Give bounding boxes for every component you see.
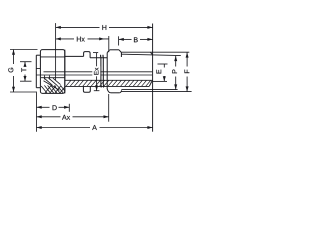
bore line lower	[36, 74, 152, 76]
label A	[92, 125, 97, 130]
collar (body shoulder) top	[84, 52, 91, 58]
shank top	[90, 57, 107, 59]
label P	[172, 70, 177, 74]
locknut hex	[107, 50, 122, 93]
extension line Hx right	[108, 36, 110, 52]
thread crest top	[121, 51, 189, 53]
panel (bulkhead plate)	[101, 55, 104, 88]
nut section hatch	[41, 85, 64, 93]
band end chamfer	[149, 80, 152, 86]
label H	[102, 25, 106, 30]
dimension D	[37, 106, 70, 109]
body section hatch band	[65, 80, 153, 86]
tube stub	[36, 55, 40, 87]
dimension G	[10, 50, 38, 93]
dimension F	[186, 52, 189, 91]
ferrules in nut section	[41, 76, 65, 91]
thread root top	[121, 54, 180, 55]
nut hex flat line	[41, 56, 65, 58]
dimension A	[37, 126, 153, 129]
dimension P	[174, 56, 177, 90]
dimension E	[153, 64, 168, 81]
label E	[156, 70, 161, 74]
dimension Ax	[37, 115, 109, 118]
extension line Ax right	[108, 94, 110, 122]
extension line tube-end vertical	[55, 23, 57, 80]
label G	[8, 68, 13, 73]
label Ex	[94, 68, 98, 75]
extension line B left	[118, 36, 120, 45]
neck top	[65, 55, 84, 57]
dimension Ex	[93, 53, 99, 91]
dimension Hx	[56, 37, 109, 40]
label D	[53, 105, 57, 110]
bore line upper	[44, 71, 153, 73]
nut (tube nut)	[40, 50, 64, 94]
dimension T	[20, 62, 32, 81]
thread crest bottom	[121, 91, 191, 93]
thread end top chamfer	[150, 52, 152, 55]
labels	[8, 25, 189, 130]
thread root bottom	[121, 89, 177, 91]
extension line bottom left vertical	[36, 92, 38, 131]
label T	[21, 68, 26, 72]
label B	[134, 37, 138, 42]
dimension H	[56, 26, 153, 29]
extension line D right	[68, 104, 70, 112]
collar bottom silhouette	[83, 86, 90, 92]
label Hx	[77, 37, 81, 42]
nut right face	[64, 50, 66, 94]
label Ax	[62, 115, 67, 120]
extension line right end vertical (thread end face + dim extension)	[152, 24, 154, 132]
label F	[184, 70, 189, 73]
dimension B	[119, 38, 153, 41]
